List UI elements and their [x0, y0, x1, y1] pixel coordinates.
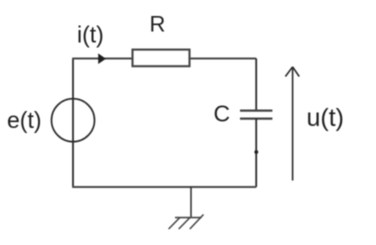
ground hatch left: [169, 218, 180, 229]
resistor R: [133, 50, 190, 67]
wire right vertical upper: [255, 59, 257, 111]
voltage arrow u(t) shaft: [292, 68, 294, 181]
wire left vertical (source branch): [72, 59, 74, 188]
wire ground stem: [190, 187, 192, 217]
svg-text:i(t): i(t): [77, 21, 104, 47]
ground hatch middle: [179, 218, 190, 229]
svg-text:R: R: [150, 11, 166, 36]
capacitor C top plate: [240, 109, 272, 111]
wire top right segment: [190, 57, 257, 59]
wire right vertical lower: [255, 119, 257, 187]
voltage arrow u(t) head left barb: [285, 67, 292, 77]
junction dot on capacitor branch: [254, 150, 258, 154]
ground symbol bar: [175, 217, 202, 219]
svg-text:e(t): e(t): [7, 107, 42, 133]
wire bottom segment: [72, 186, 256, 188]
svg-text:C: C: [214, 101, 231, 127]
voltage arrow u(t) head right barb: [293, 67, 300, 77]
voltage source e(t): [52, 99, 95, 142]
wire top left segment: [72, 57, 132, 59]
current arrow i(t): [98, 53, 106, 64]
ground hatch right: [190, 215, 204, 230]
svg-text:u(t): u(t): [307, 104, 345, 132]
capacitor C bottom plate: [240, 117, 272, 119]
